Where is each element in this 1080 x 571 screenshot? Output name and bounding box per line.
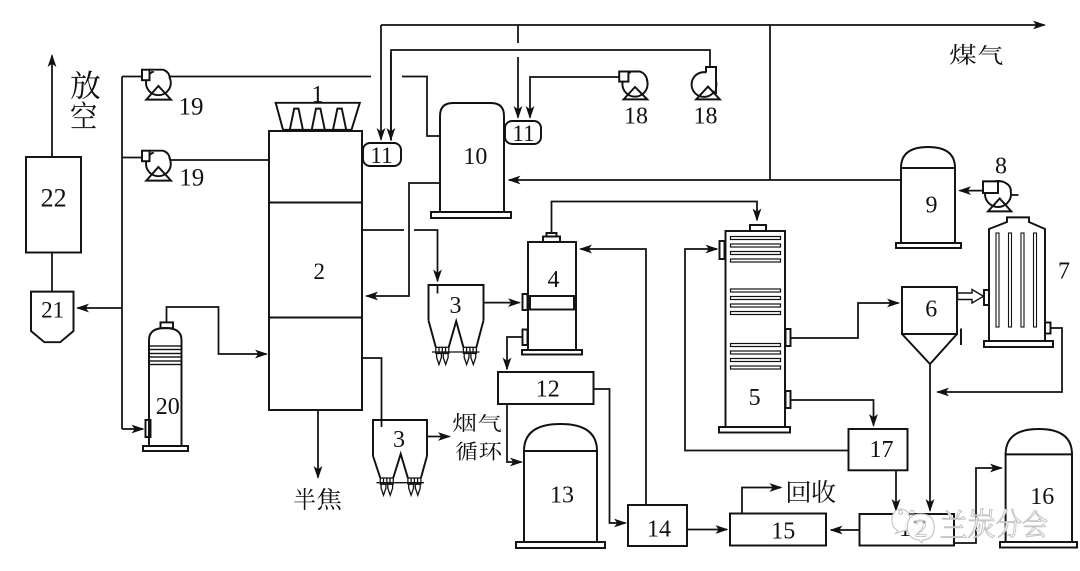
wire: 22 to 21 xyxy=(51,253,53,292)
svg-text:5: 5 xyxy=(749,385,761,411)
fan 8 xyxy=(983,181,1011,211)
vessel 10 xyxy=(431,103,511,218)
wire: tank 14b to vessel 16 xyxy=(954,468,1002,543)
svg-text:3: 3 xyxy=(450,293,462,319)
wire: tank 14b to 15 xyxy=(831,529,860,531)
vessel 4 xyxy=(522,233,582,355)
svg-text:2: 2 xyxy=(313,259,325,284)
svg-text:13: 13 xyxy=(550,483,574,509)
svg-text:16: 16 xyxy=(1030,484,1054,510)
text yanqi 烟气 xyxy=(453,413,501,432)
quench box 11 (on vessel 10) xyxy=(505,121,541,144)
svg-text:19: 19 xyxy=(179,94,204,121)
precipitator 7 xyxy=(984,217,1053,347)
svg-text:10: 10 xyxy=(463,144,487,170)
separator 6 xyxy=(902,287,957,364)
wire: precipitator 7 drain to junction xyxy=(938,328,1063,392)
wire: drop from header to 11 second box (break over y=50 line) xyxy=(517,25,519,43)
svg-text:15: 15 xyxy=(771,519,795,545)
svg-text:3: 3 xyxy=(393,427,405,453)
svg-text:18: 18 xyxy=(624,104,648,130)
wire: header drop into quench box 11 (first) xyxy=(380,25,382,140)
svg-text:6: 6 xyxy=(925,297,937,323)
svg-text:19: 19 xyxy=(179,165,204,192)
wire: 14 to 15 xyxy=(687,529,727,531)
wire: vertical x=770 from header to gas line y=180 xyxy=(769,25,771,180)
fan 18 #1 xyxy=(619,71,647,99)
wire: fan 8 discharge into vessel 9 xyxy=(960,190,983,192)
furnace 2 xyxy=(269,131,362,410)
quench box 11 (on furnace 2) xyxy=(363,143,401,166)
text meiqi 煤气 xyxy=(950,44,1003,65)
svg-text:22: 22 xyxy=(41,184,67,213)
text fangkong 放空 xyxy=(71,71,100,129)
wire: vent arrow from 22 xyxy=(51,56,53,158)
wire: box 17 left port up to tower 5 left nozzle xyxy=(685,249,849,451)
svg-text:21: 21 xyxy=(41,297,64,322)
svg-text:18: 18 xyxy=(694,104,718,130)
svg-text:14: 14 xyxy=(647,517,671,543)
wire: vessel 4 lower-left port to box 12 xyxy=(507,337,523,369)
pump 19 #1 xyxy=(142,70,171,100)
pump 19 #2 xyxy=(142,151,171,181)
svg-text:8: 8 xyxy=(995,153,1007,179)
svg-text:12: 12 xyxy=(536,376,560,402)
svg-text:7: 7 xyxy=(1058,259,1070,285)
wire: line y=77 from 11#2 drop to fan 18#1 inlet xyxy=(530,77,621,118)
wire: furnace 2 right to cyclone 3 lower xyxy=(362,358,382,427)
wire: suction header x=122 for pumps 19 xyxy=(121,77,123,430)
wire: box 12 to vessel 13 xyxy=(507,404,522,462)
wire: gas line from vessel 9 to vessel 10 right side xyxy=(509,179,901,181)
tower 5 xyxy=(719,225,791,433)
svg-text:9: 9 xyxy=(926,193,938,219)
wire: raw gas main header to coal-gas outlet xyxy=(381,24,1045,26)
wire: pump19#1 discharge to vessel 10 top-left (with crossover breaks) xyxy=(170,76,371,78)
wire: branch into separator 21 xyxy=(78,307,123,309)
cyclone 3 lower xyxy=(373,420,427,495)
wire: second header line y=50 xyxy=(391,50,710,141)
wire: separator 6 cone down to tank 14b xyxy=(929,364,931,511)
svg-text:11: 11 xyxy=(512,121,534,146)
text xunhuan 循环 xyxy=(456,441,501,460)
wire: box 17 bottom to tank 14b xyxy=(895,471,897,511)
hollow arrow 6 to 7 xyxy=(958,290,984,304)
box 17 xyxy=(849,429,908,470)
box 15 xyxy=(730,514,826,546)
wire: pump19#2 inlet xyxy=(122,157,142,159)
wire: recovery line from 15 xyxy=(742,488,781,514)
svg-text:4: 4 xyxy=(548,267,560,293)
svg-text:20: 20 xyxy=(156,394,180,420)
cyclone 3 upper xyxy=(429,285,484,365)
tank 14b (watermarked) xyxy=(860,514,955,546)
svg-text:11: 11 xyxy=(370,143,392,168)
wire: furnace 2 to cyclone 3 upper (break over x=409) xyxy=(362,229,404,231)
vessel 9 xyxy=(896,147,961,248)
wire: cyclone 3 lower outlet (flue gas recycle) xyxy=(427,436,450,438)
text banjiao 半焦 xyxy=(294,488,341,510)
wire: pump19#1 inlet xyxy=(122,76,142,78)
wire: branch into vessel 20 side nozzle xyxy=(122,428,143,430)
box 12 xyxy=(498,372,594,404)
wire: vessel 10 left port down into furnace 2 right xyxy=(367,183,441,296)
wire: cyclone 3 upper outlet to vessel 4 xyxy=(484,302,520,304)
stray tick right of 6 xyxy=(960,329,962,346)
vessel 22 xyxy=(26,157,81,253)
wire: semicoke discharge arrow below furnace 2 xyxy=(317,410,319,478)
text huishou 回收 xyxy=(788,480,835,503)
hopper 1 xyxy=(276,103,360,130)
vessel 13 xyxy=(516,424,605,548)
watermark logo bubble small xyxy=(892,509,910,534)
vessel 20 xyxy=(143,322,188,451)
wire: pump19#2 discharge into furnace 2 xyxy=(170,159,269,161)
wire: tower 5 mid port to separator 6 xyxy=(791,303,899,338)
wire: tower 5 lower port to box 17 xyxy=(791,400,874,426)
wire: fan 8 suction stub xyxy=(1011,194,1019,196)
wire: box 12 to box 14 xyxy=(594,389,626,523)
svg-text:2: 2 xyxy=(915,516,928,543)
fan 18 #2 xyxy=(692,67,720,99)
svg-text:1: 1 xyxy=(312,82,324,108)
box 14 xyxy=(628,505,687,546)
separator 21 xyxy=(31,292,74,343)
wire: vessel 20 top to furnace 2 left xyxy=(167,307,267,354)
watermark logo bubble large xyxy=(907,514,934,543)
svg-text:17: 17 xyxy=(870,437,894,463)
vessel 16 xyxy=(1000,429,1077,548)
wire: riser from 14 into vessel 4 right xyxy=(581,249,647,505)
watermark text 兰炭分会 xyxy=(941,509,1047,538)
wire: vessel 4 top to tower 5 top xyxy=(552,202,758,234)
node arrow into 11 first box (second drop) xyxy=(390,53,392,140)
